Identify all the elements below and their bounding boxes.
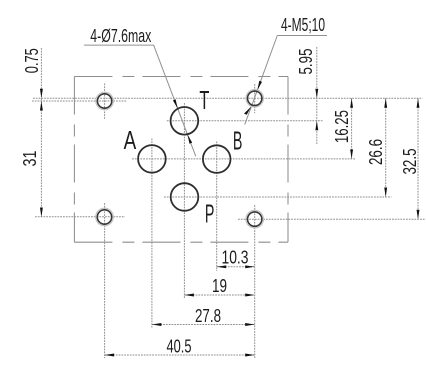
bolt hole TL outer <box>96 92 114 110</box>
svg-text:0.75: 0.75 <box>22 48 42 73</box>
arrow up at 98.3 d32 <box>417 98 420 108</box>
bolt hole TR outer <box>246 90 264 108</box>
arrow up at 98.3 d16 <box>350 98 353 108</box>
svg-text:P: P <box>205 198 215 228</box>
bolt hole TL <box>97 94 111 108</box>
arrow at T top <box>173 99 178 108</box>
centerline BR column extension <box>254 205 256 359</box>
centerline TL row <box>32 100 127 102</box>
bolt hole BR outer <box>246 210 264 228</box>
arrow left 10.3 <box>217 265 227 268</box>
bolt hole BR <box>248 212 262 226</box>
leader underline 7.6 label <box>84 44 154 46</box>
port A <box>138 145 166 173</box>
diameter line through TR hole <box>251 90 257 106</box>
body outline bottom edge <box>74 241 288 243</box>
centerline TL column <box>104 84 106 119</box>
dimension line 26.6 <box>385 98 387 197</box>
arrow right 27.8 <box>245 323 255 326</box>
svg-text:4-M5;10: 4-M5;10 <box>281 15 325 35</box>
leader tail below T <box>187 134 195 156</box>
svg-text:16.25: 16.25 <box>332 110 352 143</box>
centerline T row <box>167 120 323 122</box>
arrow up at 98.3 d26 <box>384 98 387 108</box>
leader underline M5 label <box>277 35 327 37</box>
dimension line 10.3 <box>217 266 255 268</box>
arrow down at 219.2 d32 <box>417 210 420 220</box>
dimension line 40.5 <box>105 354 255 356</box>
arrow down at 217 left <box>40 208 43 218</box>
dimension line 32.5 <box>417 98 419 219</box>
dimension line 27.8 <box>152 324 255 326</box>
arrow down at 197 d26 <box>384 188 387 198</box>
arrow left 40.5 <box>105 354 115 357</box>
svg-text:T: T <box>199 85 209 115</box>
centerline B column <box>216 142 218 272</box>
centerline TR row long <box>33 97 423 99</box>
centerline BL row <box>35 216 125 218</box>
centerline TR column <box>254 84 256 113</box>
svg-text:31: 31 <box>20 151 40 167</box>
arrow at TR hole bottom <box>244 106 251 114</box>
centerline BR row <box>238 218 425 220</box>
svg-text:27.8: 27.8 <box>195 306 221 326</box>
arrow at TR hole top <box>257 81 262 90</box>
leader diagonal to T <box>154 45 178 109</box>
dimension line 5.95 <box>316 47 318 144</box>
bolt hole TR <box>248 91 262 105</box>
arrow right 40.5 <box>245 354 255 357</box>
svg-text:A: A <box>124 125 137 155</box>
centerline P row <box>164 196 392 198</box>
arrow down at 158.9 d16 <box>350 149 353 159</box>
bolt hole BL <box>97 210 111 224</box>
arrow right 10.3 <box>245 265 255 268</box>
centerline TP column <box>183 103 185 298</box>
port P <box>171 183 199 211</box>
bolt hole BL outer <box>96 208 114 226</box>
svg-text:32.5: 32.5 <box>400 149 420 175</box>
svg-text:10.3: 10.3 <box>222 247 249 267</box>
arrow down at 98.3 right <box>315 89 318 99</box>
arrow left 19 <box>184 294 194 297</box>
dimension line 19 <box>184 294 254 296</box>
arrow down at 98.3 left <box>40 89 43 99</box>
svg-text:4-Ø7.6max: 4-Ø7.6max <box>90 26 151 46</box>
arrow up at 120.8 <box>315 121 318 131</box>
arrow left 27.8 <box>152 323 162 326</box>
body outline right edge <box>287 77 289 243</box>
body outline left edge <box>73 77 75 243</box>
svg-text:19: 19 <box>212 276 227 296</box>
svg-text:40.5: 40.5 <box>167 337 192 357</box>
arrow right 19 <box>245 294 255 297</box>
body outline top edge <box>74 76 288 78</box>
dimension line 16.25 <box>351 98 353 159</box>
dimension line left 0.75 and 31 <box>40 48 42 217</box>
port T <box>171 107 199 135</box>
svg-text:26.6: 26.6 <box>366 139 386 165</box>
arrow up at 101 left <box>40 101 43 111</box>
centerline AB row <box>132 158 356 160</box>
centerline BL column extension <box>104 203 106 358</box>
svg-text:5.95: 5.95 <box>296 49 316 75</box>
svg-text:B: B <box>233 125 243 155</box>
leader tail below TR hole <box>245 106 252 124</box>
diameter line through T <box>178 109 188 135</box>
arrow at T bottom <box>187 134 192 143</box>
centerline A column <box>151 139 153 328</box>
leader diagonal to TR hole <box>257 36 277 91</box>
port B <box>203 145 231 173</box>
